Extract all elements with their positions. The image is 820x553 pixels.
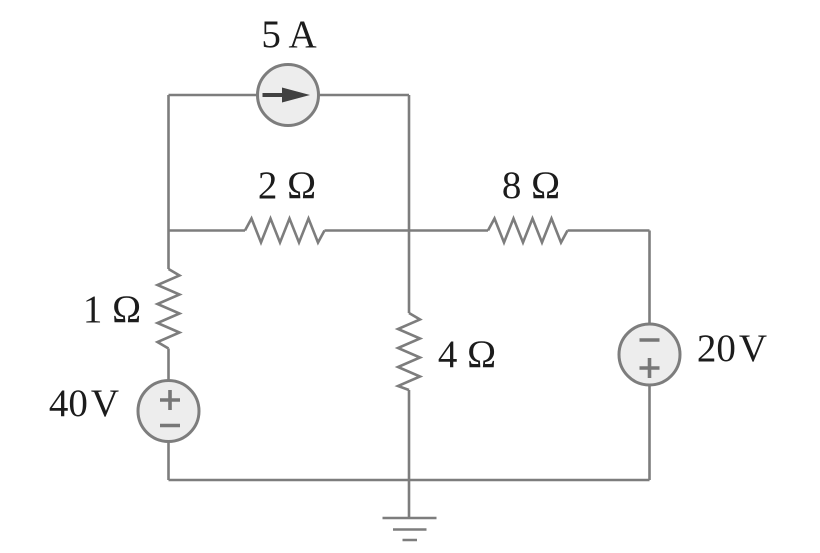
ground bar 1 <box>383 517 437 520</box>
voltage source 40V circle <box>138 381 199 442</box>
wire left rail between resistor and 40V source <box>167 349 170 382</box>
wire middle rail upper <box>408 95 411 313</box>
svg-text:2 Ω: 2 Ω <box>258 164 316 207</box>
wire left rail upper <box>167 95 170 269</box>
wire top horizontal <box>169 94 410 97</box>
wire middle horizontal center segment <box>325 229 489 232</box>
minus sign <box>640 338 660 342</box>
wire left rail lower <box>167 441 170 480</box>
resistor 4ohm zigzag <box>398 313 420 390</box>
resistor 8ohm zigzag <box>488 219 568 243</box>
resistor 2ohm zigzag <box>245 219 325 243</box>
wire right rail lower <box>648 385 651 480</box>
resistor 1ohm zigzag <box>158 269 180 349</box>
wire middle rail lower <box>408 390 411 480</box>
svg-text:1 Ω: 1 Ω <box>83 288 141 331</box>
plus sign <box>160 390 180 410</box>
wire middle horizontal right segment <box>568 229 650 232</box>
ground bar 3 <box>403 539 418 542</box>
wire bottom horizontal <box>169 479 650 482</box>
ground stub <box>408 480 411 518</box>
svg-text:5 A: 5 A <box>261 13 316 56</box>
voltage source 20V circle <box>619 324 680 385</box>
wire right rail upper <box>648 231 651 325</box>
ground bar 2 <box>393 528 427 531</box>
minus sign <box>160 424 180 428</box>
plus sign <box>640 358 660 378</box>
svg-text:40 V: 40 V <box>49 382 119 425</box>
current source arrow <box>263 93 286 97</box>
svg-text:4 Ω: 4 Ω <box>438 333 496 376</box>
wire middle horizontal left segment <box>169 229 246 232</box>
svg-text:20 V: 20 V <box>697 327 767 370</box>
current source 5A circle <box>258 65 319 126</box>
svg-text:8 Ω: 8 Ω <box>502 164 560 207</box>
